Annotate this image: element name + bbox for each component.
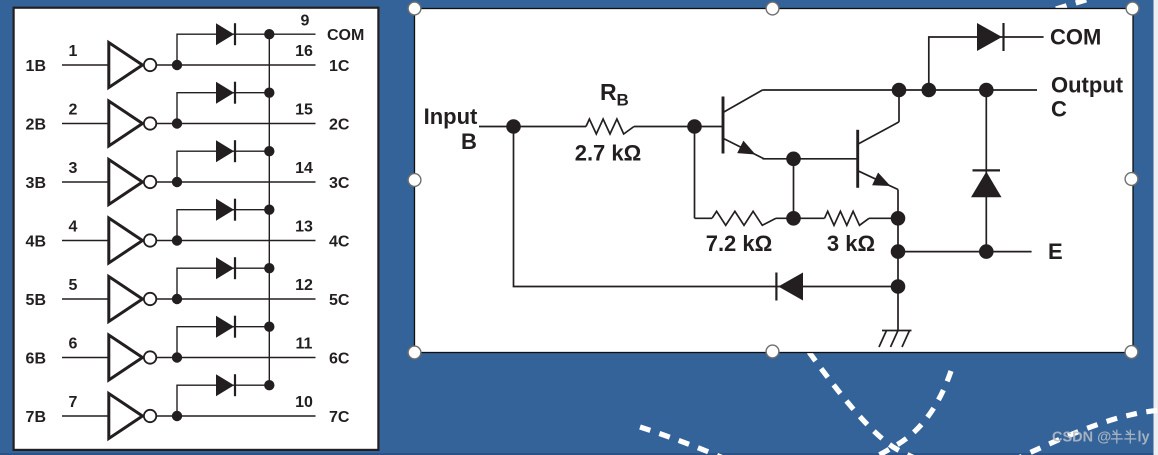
diode D7: [216, 374, 235, 396]
input label 7B: [26, 409, 46, 426]
output label 1C: [329, 58, 350, 75]
svg-text:12: 12: [295, 277, 313, 294]
svg-text:C: C: [1051, 97, 1067, 122]
node channel 5 output junction: [172, 294, 182, 304]
svg-text:5C: 5C: [329, 292, 350, 309]
pin 5 label: [69, 277, 78, 294]
svg-text:11: 11: [296, 336, 313, 353]
input wire channel 7: [62, 415, 108, 417]
pin 2 label: [69, 102, 78, 119]
transistor Q1: [723, 90, 764, 159]
pin 1 label: [69, 43, 78, 60]
input wire channel 6: [62, 357, 108, 359]
buffer U6: [109, 335, 157, 380]
wire 7.2k left lead: [695, 217, 713, 219]
wire emitter column E to diode row: [897, 218, 899, 286]
output label 6C: [329, 350, 350, 367]
svg-text:2.7 kΩ: 2.7 kΩ: [575, 141, 642, 166]
input label 2B: [26, 116, 46, 133]
svg-text:E: E: [1048, 239, 1063, 264]
node channel 4 output junction: [172, 235, 182, 245]
buffer U3: [109, 160, 157, 205]
svg-text:1B: 1B: [26, 58, 46, 75]
wire diode branch channel 6: [177, 327, 269, 358]
diode D2 to COM: [977, 23, 1004, 51]
svg-text:7B: 7B: [26, 409, 46, 426]
wire collector rail: [763, 89, 1038, 91]
svg-text:7C: 7C: [329, 409, 350, 426]
pin 6 label: [69, 336, 78, 353]
buffer U1: [109, 43, 157, 88]
ground: [879, 331, 912, 348]
node channel 2 output junction: [172, 118, 182, 128]
svg-text:5B: 5B: [26, 292, 46, 309]
node rail Q2 collector: [892, 83, 907, 98]
diode D1: [216, 23, 235, 45]
wire input to node: [479, 126, 514, 128]
wire node to RB: [514, 126, 587, 128]
wire Q1 emitter to Q2 base: [763, 158, 858, 160]
wire base node down to 7.2k row: [694, 127, 696, 219]
3 kOhm value label: [827, 231, 875, 256]
wire common cathode bus: [268, 34, 270, 385]
wire RB to base node: [634, 126, 695, 128]
logic diagram panel: [14, 8, 379, 450]
node E rail clamp: [979, 244, 994, 259]
svg-text:16: 16: [295, 43, 313, 60]
output wire channel 3: [156, 181, 316, 183]
RB designator label: [600, 79, 629, 110]
resistor 7.2k: [712, 211, 776, 225]
pin 11 label: [296, 336, 313, 353]
Input B label: [424, 104, 478, 154]
svg-text:3 kΩ: 3 kΩ: [827, 231, 875, 256]
wire base node to Q1: [695, 126, 724, 128]
output label 2C: [329, 116, 350, 133]
svg-text:2C: 2C: [329, 116, 350, 133]
pin 12 label: [295, 277, 313, 294]
svg-text:CSDN @: CSDN @: [1052, 430, 1111, 446]
svg-text:7.2 kΩ: 7.2 kΩ: [706, 231, 773, 256]
node rail output clamp branch: [979, 83, 994, 98]
output label 7C: [329, 409, 350, 426]
input label 4B: [26, 233, 46, 250]
wire Q2 collector up to rail: [898, 90, 900, 122]
wire diode branch channel 1: [177, 34, 269, 65]
node bus junction channel 2: [264, 88, 274, 98]
output wire channel 5: [156, 298, 316, 300]
node rail COM branch: [922, 83, 937, 98]
svg-text:2B: 2B: [26, 116, 46, 133]
pin 15 label: [295, 102, 313, 119]
buffer U5: [109, 277, 157, 322]
pin 14 label: [295, 160, 313, 177]
wire diode branch channel 2: [177, 93, 269, 124]
node bus junction channel 3: [264, 146, 274, 156]
wire COM branch: [929, 37, 1044, 90]
wire Q2 emitter down: [897, 190, 899, 219]
svg-text:R: R: [600, 79, 617, 105]
node bus junction channel 7: [264, 380, 274, 390]
output wire channel 4: [156, 240, 316, 242]
svg-text:14: 14: [295, 160, 313, 177]
wire diode branch channel 4: [177, 210, 269, 241]
input wire channel 3: [62, 181, 108, 183]
pin 9 label: [301, 13, 310, 30]
wire diode branch channel 7: [177, 385, 269, 416]
svg-text:4: 4: [69, 219, 78, 236]
output wire channel 7: [156, 415, 316, 417]
transistor Q2: [858, 122, 899, 190]
svg-text:1C: 1C: [329, 58, 350, 75]
node ground junction: [891, 279, 906, 294]
svg-text:3B: 3B: [26, 175, 46, 192]
pin 10 label: [295, 394, 313, 411]
output wire channel 2: [156, 123, 316, 125]
node bus junction channel 4: [264, 205, 274, 215]
diode D3: [216, 140, 235, 162]
wire to ground: [897, 287, 899, 331]
resistor RB 2.7k: [586, 119, 634, 134]
svg-text:1: 1: [69, 43, 78, 60]
node emitter column at resistor row: [891, 211, 906, 226]
svg-text:5: 5: [69, 277, 78, 294]
node bus junction channel 6: [264, 322, 274, 332]
svg-text:3: 3: [69, 160, 78, 177]
schematic panel (selected image): [415, 9, 1134, 353]
node input junction: [506, 119, 521, 134]
node Q1 base junction: [687, 119, 702, 134]
svg-text:Output: Output: [1051, 73, 1124, 98]
svg-text:13: 13: [295, 219, 313, 236]
node Q1 emitter junction: [786, 152, 801, 167]
wire output clamp column: [985, 90, 987, 252]
output wire channel 1: [156, 64, 316, 66]
node bus junction channel 5: [264, 263, 274, 273]
wire E rail: [898, 251, 1032, 253]
diode D2: [216, 82, 235, 104]
svg-text:Input: Input: [424, 104, 478, 129]
resistor 3k: [825, 211, 870, 225]
output wire channel 6: [156, 357, 316, 359]
buffer U7: [109, 394, 157, 439]
input wire channel 4: [62, 240, 108, 242]
output label 3C: [329, 175, 350, 192]
node E rail left: [891, 244, 906, 259]
COM label: [1050, 25, 1101, 50]
svg-text:ly: ly: [1138, 430, 1150, 446]
input wire channel 1: [62, 64, 108, 66]
node channel 1 output junction: [172, 60, 182, 70]
svg-text:COM: COM: [327, 27, 364, 44]
svg-text:6C: 6C: [329, 350, 350, 367]
wire 3k right lead: [869, 217, 898, 219]
svg-text:10: 10: [295, 394, 313, 411]
Output C label: [1051, 73, 1124, 122]
svg-text:9: 9: [301, 13, 310, 30]
output label 4C: [329, 233, 350, 250]
wire COM rail top: [269, 33, 315, 35]
wire mid node to 3k: [794, 217, 825, 219]
pin 4 label: [69, 219, 78, 236]
wire emitter node down to resistor row: [793, 159, 795, 219]
node channel 7 output junction: [172, 411, 182, 421]
E label: [1048, 239, 1063, 264]
output label 5C: [329, 292, 350, 309]
svg-text:15: 15: [295, 102, 313, 119]
svg-text:B: B: [461, 129, 477, 154]
svg-text:3C: 3C: [329, 175, 350, 192]
svg-text:B: B: [617, 91, 629, 110]
pin 16 label: [295, 43, 313, 60]
input label 6B: [26, 350, 46, 367]
2.7 kOhm value label: [575, 141, 642, 166]
diode D3 output clamp: [971, 170, 1002, 197]
wire diode branch channel 5: [177, 268, 269, 299]
svg-text:2: 2: [69, 102, 78, 119]
input wire channel 2: [62, 123, 108, 125]
diode D5: [216, 257, 235, 279]
svg-text:COM: COM: [1050, 25, 1101, 50]
7.2 kOhm value label: [706, 231, 773, 256]
pin 7 label: [69, 394, 78, 411]
diode D6: [216, 316, 235, 338]
svg-text:6B: 6B: [26, 350, 46, 367]
wire 7.2k to mid node: [776, 217, 794, 219]
node channel 6 output junction: [172, 352, 182, 362]
pin 13 label: [295, 219, 313, 236]
buffer U2: [109, 101, 157, 146]
node resistor row mid junction: [786, 211, 801, 226]
COM label left panel: [327, 27, 364, 44]
wire diode branch channel 3: [177, 151, 269, 182]
input label 5B: [26, 292, 46, 309]
svg-text:4B: 4B: [26, 233, 46, 250]
svg-text:6: 6: [69, 336, 78, 353]
node channel 3 output junction: [172, 177, 182, 187]
pin 3 label: [69, 160, 78, 177]
input label 3B: [26, 175, 46, 192]
wire input clamp branch: [514, 127, 899, 287]
input wire channel 5: [62, 298, 108, 300]
svg-text:7: 7: [69, 394, 78, 411]
diode D1 input clamp: [776, 273, 803, 301]
svg-text:4C: 4C: [329, 233, 350, 250]
diode D4: [216, 199, 235, 221]
node bus junction channel 1: [264, 29, 274, 39]
buffer U4: [109, 218, 157, 263]
input label 1B: [26, 58, 46, 75]
